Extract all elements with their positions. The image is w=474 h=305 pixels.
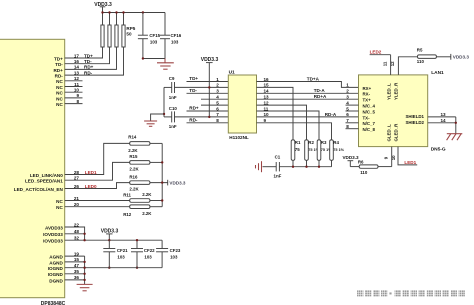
svg-text:RD-A: RD-A: [325, 112, 337, 117]
PHY IC DP83848C block: [0, 39, 65, 297]
resistor R16 2.2K: [129, 174, 167, 191]
svg-text:RX+: RX+: [363, 86, 372, 91]
VDD3.3 power symbol top: [94, 2, 112, 13]
LAN pin names YLED_L YLED_R rotated: [386, 82, 398, 100]
GND join vertical wire: [83, 256, 85, 284]
center tap VDD vertical wire: [208, 63, 210, 119]
capacitor CF21: [103, 240, 128, 269]
svg-text:47: 47: [74, 263, 80, 268]
svg-text:R3: R3: [321, 140, 327, 145]
pin 48 IOVDD33 wire: [43, 229, 86, 237]
svg-text:NC: NC: [56, 85, 63, 90]
LAN pin7 stub: [346, 118, 359, 123]
svg-text:R12: R12: [123, 212, 132, 217]
pin 8 NC stub: [56, 99, 82, 107]
watermark text: [357, 290, 465, 296]
svg-text:35: 35: [74, 269, 80, 274]
svg-text:SHIELD2: SHIELD2: [405, 120, 424, 125]
svg-text:C10: C10: [169, 106, 178, 111]
LAN pin8 stub: [346, 124, 359, 129]
svg-text:LED_ACT/COL/AN_EN: LED_ACT/COL/AN_EN: [14, 187, 64, 192]
pin 16 TD- wire: [55, 47, 109, 67]
svg-text:IOVDD33: IOVDD33: [43, 239, 63, 244]
svg-text:110: 110: [417, 59, 425, 64]
svg-text:103: 103: [171, 40, 179, 45]
pin 20 NC wire: [56, 202, 130, 210]
pin 11 NC stub: [56, 82, 82, 90]
pin 21 NC wire: [56, 196, 130, 204]
resistor pack RP5: [101, 13, 136, 48]
ground tap wire: [151, 114, 164, 121]
svg-text:8: 8: [76, 99, 79, 104]
wire U1 pin12 to R2: [257, 105, 307, 140]
svg-text:32: 32: [74, 236, 80, 241]
svg-text:TX-: TX-: [363, 115, 371, 120]
svg-text:VDD3.3: VDD3.3: [169, 180, 186, 185]
svg-text:VDD3.3: VDD3.3: [201, 57, 219, 63]
svg-text:DN5-G: DN5-G: [431, 146, 446, 152]
LAN pin4 stub: [346, 100, 359, 105]
svg-text:27: 27: [74, 176, 80, 181]
svg-text:12: 12: [390, 61, 395, 66]
svg-text:50: 50: [126, 31, 132, 36]
wire U1 pin10 RD-A to LAN pin6: [257, 112, 359, 117]
pin 36 DGND wire: [49, 275, 84, 283]
resistor R5 110: [417, 47, 451, 64]
svg-text:TD-: TD-: [189, 88, 197, 93]
svg-text:RD-: RD-: [55, 74, 64, 79]
svg-text:AVDD33: AVDD33: [45, 225, 63, 230]
svg-text:5: 5: [216, 100, 219, 105]
resistor R1 75: [291, 140, 301, 167]
svg-text:TD-: TD-: [84, 59, 92, 64]
svg-text:2.2K: 2.2K: [128, 148, 138, 153]
svg-text:21: 21: [74, 196, 80, 201]
LAN pin names GLED_L GLED_R rotated: [386, 123, 398, 142]
svg-text:YLED_R: YLED_R: [394, 82, 399, 100]
svg-text:17: 17: [74, 53, 80, 58]
svg-text:14: 14: [74, 65, 80, 70]
wire U1 pin11 to R3: [257, 111, 320, 140]
svg-text:NC: NC: [56, 102, 63, 107]
svg-text:R11: R11: [123, 193, 131, 198]
svg-text:7: 7: [216, 112, 219, 117]
capacitor C1: [263, 155, 282, 179]
svg-text:TD+A: TD+A: [307, 76, 320, 81]
svg-text:LED1: LED1: [404, 160, 416, 165]
svg-text:1nF: 1nF: [169, 95, 177, 100]
svg-text:9: 9: [76, 93, 79, 98]
svg-text:2.2K: 2.2K: [142, 192, 152, 197]
svg-text:4: 4: [346, 100, 349, 105]
ground below C9/C10: [144, 121, 157, 126]
svg-text:75: 75: [295, 147, 300, 152]
svg-text:RD-: RD-: [84, 70, 93, 75]
svg-text:CF16: CF16: [171, 33, 182, 38]
pin 26 LED_ACT/COL/AN_EN wire: [14, 183, 130, 192]
power port VDD3.3 at R16: [168, 180, 186, 186]
svg-text:20: 20: [74, 202, 80, 207]
capacitor CF16: [160, 13, 182, 59]
terminator bottom rail wire: [279, 166, 331, 168]
svg-text:R16: R16: [129, 174, 138, 179]
svg-text:103: 103: [150, 40, 158, 45]
svg-text:IOGND: IOGND: [48, 266, 64, 271]
svg-text:NC: NC: [56, 91, 63, 96]
svg-text:AGND: AGND: [49, 260, 63, 265]
junction dots on VDD rail: [101, 11, 144, 13]
svg-text:103: 103: [170, 255, 178, 260]
svg-text:22: 22: [74, 222, 80, 227]
svg-text:SHIELD1: SHIELD1: [405, 114, 424, 119]
svg-text:C1: C1: [275, 155, 281, 160]
wire U1 pin9 to R4: [257, 123, 332, 140]
LAN pin14 wire: [428, 118, 456, 123]
pin 32 IOVDD33 wire (VDD rail): [43, 236, 162, 244]
pin 9 stub wire: [391, 147, 393, 167]
VDD3.3 power symbol bottom: [101, 229, 119, 242]
svg-text:N/C_5: N/C_5: [363, 109, 376, 114]
svg-text:2: 2: [216, 83, 219, 88]
svg-text:2.2K: 2.2K: [129, 167, 139, 172]
LAN left pin names: [363, 86, 376, 132]
svg-text:TD+: TD+: [84, 53, 93, 58]
resistor R15 2.2K: [129, 154, 162, 172]
net stub RD+: [187, 106, 229, 111]
svg-text:LED0: LED0: [85, 184, 97, 189]
svg-text:103: 103: [117, 255, 125, 260]
svg-text:10: 10: [74, 88, 80, 93]
svg-text:26: 26: [74, 184, 80, 189]
svg-text:CF15: CF15: [149, 33, 160, 38]
resistor R4 75 1%: [330, 140, 345, 167]
transformer U1 H1102NL: [228, 70, 256, 140]
LED resistor rail wire: [161, 143, 163, 206]
svg-text:110: 110: [360, 170, 368, 175]
ground symbol bottom left: [77, 284, 93, 290]
pin 27 LED_SPEED/AN1 wire: [25, 162, 130, 183]
LAN pin13 wire: [428, 112, 456, 117]
VDD3.3 power symbol bottom right: [342, 155, 359, 167]
pin 14 RD+ wire: [53, 47, 116, 73]
svg-text:28: 28: [74, 170, 80, 175]
resistor R3 75 1%: [317, 140, 332, 167]
svg-text:C9: C9: [169, 76, 175, 81]
svg-text:6: 6: [216, 106, 219, 111]
ground below CF16: [157, 59, 174, 70]
svg-text:12: 12: [74, 76, 80, 81]
svg-text:RP5: RP5: [126, 26, 135, 31]
pin 35 IOGND wire: [48, 269, 85, 277]
power port VDD3.3 right: [451, 54, 470, 60]
svg-text:N/C_7: N/C_7: [363, 121, 376, 126]
svg-text:LED1: LED1: [85, 170, 97, 175]
svg-text:3: 3: [216, 89, 219, 94]
pin 13 RD- wire: [55, 47, 124, 79]
ground left of C1: [256, 161, 262, 172]
U1 right pin numbers: [264, 77, 270, 123]
svg-text:YLED_L: YLED_L: [386, 83, 391, 100]
svg-text:RD+A: RD+A: [314, 94, 327, 99]
svg-text:TD-: TD-: [55, 62, 63, 67]
capacitor C9: [164, 76, 228, 100]
svg-text:R4: R4: [333, 140, 339, 145]
svg-text:5: 5: [346, 106, 349, 111]
svg-text:N/C_8: N/C_8: [363, 127, 376, 132]
svg-text:NC: NC: [56, 205, 63, 210]
svg-text:RD+: RD+: [53, 68, 63, 73]
svg-text:14: 14: [441, 118, 447, 123]
RJ45 jack LAN1 DN5-G block: [359, 70, 446, 153]
svg-text:R15: R15: [129, 154, 138, 159]
wire U1 pin13 RD+A to LAN pin3: [257, 94, 359, 99]
pin 17 TD+ wire: [54, 47, 103, 61]
wire U1 pin14 TD-A to LAN pin2: [257, 88, 359, 93]
net stub TD+: [187, 76, 229, 81]
svg-text:LED_LINK/AN0: LED_LINK/AN0: [30, 173, 63, 178]
pin 9 NC stub: [56, 93, 82, 101]
svg-text:11: 11: [383, 61, 388, 66]
svg-text:DGND: DGND: [49, 278, 63, 283]
svg-text:16: 16: [74, 59, 80, 64]
svg-text:10: 10: [391, 155, 396, 160]
svg-text:4: 4: [216, 95, 219, 100]
U1 pin4 stub: [201, 98, 228, 100]
svg-text:48: 48: [74, 229, 80, 234]
pin 12 stub wire to R5: [398, 57, 417, 75]
shield ground vertical wire: [455, 117, 457, 134]
U1 left pin numbers: [216, 77, 219, 123]
resistor R12 2.2K: [123, 205, 162, 217]
capacitor CF15: [138, 13, 161, 59]
svg-text:RD-: RD-: [189, 118, 198, 123]
svg-text:RD+: RD+: [84, 65, 94, 70]
svg-text:TX+: TX+: [363, 98, 372, 103]
svg-text:DP83848C: DP83848C: [41, 301, 66, 305]
svg-text:N/C_4: N/C_4: [363, 104, 376, 109]
svg-text:R2: R2: [308, 140, 314, 145]
svg-text:8: 8: [216, 118, 219, 123]
svg-text:VDD3.3: VDD3.3: [342, 155, 359, 160]
svg-text:8: 8: [346, 124, 349, 129]
svg-text:1: 1: [346, 83, 349, 88]
wire U1 pin16 TD+A to LAN pin1: [257, 76, 359, 87]
SHIELD1 SHIELD2 pin names: [405, 114, 424, 125]
svg-text:CF21: CF21: [117, 248, 128, 253]
svg-text:6: 6: [346, 112, 349, 117]
U1 pin5 stub: [201, 104, 228, 106]
LED2 net wire to pin 11: [370, 50, 391, 75]
svg-text:2: 2: [346, 89, 349, 94]
svg-text:GLED_R: GLED_R: [394, 123, 399, 142]
LAN pin5 stub: [346, 106, 359, 111]
resistor R11 2.2K: [123, 192, 162, 202]
svg-text:7: 7: [346, 118, 349, 123]
svg-text:NC: NC: [56, 79, 63, 84]
net stub RD-: [187, 118, 229, 123]
svg-text:LAN1: LAN1: [431, 70, 444, 76]
svg-text:AGND: AGND: [49, 255, 63, 260]
pin 19 AGND wire: [49, 251, 84, 259]
pin 47 IOGND wire: [48, 263, 162, 271]
svg-text:103: 103: [144, 255, 152, 260]
svg-text:LED_SPEED/AN1: LED_SPEED/AN1: [25, 179, 63, 184]
svg-text:TD+: TD+: [54, 56, 63, 61]
cap bottom rail wire: [143, 58, 165, 60]
capacitor CF22: [131, 239, 155, 269]
svg-text:RX-: RX-: [363, 92, 371, 97]
svg-text:R1: R1: [295, 140, 301, 145]
pin 10 stub wire LED1: [398, 147, 417, 166]
svg-text:R5: R5: [417, 47, 423, 52]
capacitor C10: [164, 106, 228, 129]
resistor R6 110: [350, 160, 391, 176]
svg-text:13: 13: [74, 70, 80, 75]
svg-text:LED2: LED2: [370, 50, 382, 55]
svg-text:IOVDD33: IOVDD33: [43, 232, 63, 237]
svg-text:IOGND: IOGND: [48, 272, 64, 277]
C9/C10 left rail wire: [163, 87, 165, 117]
svg-text:CF22: CF22: [144, 248, 155, 253]
chassis ground symbol: [447, 134, 463, 141]
pin 15 AGND wire: [49, 257, 84, 265]
resistor R2 75 1%: [305, 140, 320, 167]
svg-text:75 1%: 75 1%: [333, 148, 344, 152]
svg-text:CF23: CF23: [170, 248, 181, 253]
svg-text:1nF: 1nF: [274, 173, 282, 178]
svg-text:TD+: TD+: [189, 76, 198, 81]
svg-text:GLED_L: GLED_L: [386, 124, 391, 142]
svg-text:13: 13: [441, 112, 447, 117]
svg-text:2.2K: 2.2K: [142, 211, 152, 216]
svg-text:1: 1: [216, 77, 219, 82]
capacitor CF23: [156, 240, 181, 268]
svg-text:VDD3.3: VDD3.3: [453, 54, 470, 59]
VDD3.3 power symbol mid: [201, 57, 219, 63]
svg-text:TD-A: TD-A: [314, 88, 326, 93]
svg-text:19: 19: [74, 251, 80, 256]
svg-text:R14: R14: [128, 135, 137, 140]
svg-text:1nF: 1nF: [169, 124, 177, 129]
svg-text:NC: NC: [56, 199, 63, 204]
svg-text:R6: R6: [358, 160, 364, 165]
svg-text:15: 15: [74, 257, 80, 262]
net stub TD-: [187, 88, 229, 93]
svg-text:3: 3: [346, 95, 349, 100]
pin 10 NC stub: [56, 88, 82, 96]
top VDD rail wire: [103, 12, 166, 14]
svg-text:2.2K: 2.2K: [129, 187, 139, 192]
wire U1 pin15 to R1: [257, 87, 294, 139]
svg-text:U1: U1: [229, 70, 235, 76]
pin 28 LED_LINK/AN0 wire: [30, 143, 130, 178]
pin 12 NC stub: [56, 76, 82, 84]
svg-text:36: 36: [74, 275, 80, 280]
svg-text:RD+: RD+: [189, 106, 199, 111]
resistor R14 2.2K: [128, 135, 162, 153]
svg-text:NC: NC: [56, 96, 63, 101]
svg-text:H1102NL: H1102NL: [229, 135, 249, 140]
pin 22 AVDD33 wire: [45, 222, 85, 240]
svg-text:11: 11: [74, 82, 79, 87]
